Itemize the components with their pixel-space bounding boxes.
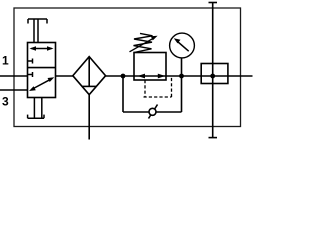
gauge G1 needle xyxy=(174,38,189,51)
valve V1 bottom position: blocked port symbol xyxy=(28,72,33,77)
wire: valve outlet to filter xyxy=(56,75,73,77)
valve V1 manual push-pull knob actuator xyxy=(28,19,47,43)
wire: bypass loop bottom run xyxy=(123,111,182,113)
valve V1 top position: blocked port symbol xyxy=(28,59,33,64)
wire: bypass loop right rise xyxy=(181,76,183,112)
wire: main flow line port 1 to outlet (y=76) xyxy=(0,75,28,77)
regulator R1 adjustment spring (zigzag) xyxy=(134,33,153,52)
svg-text:3: 3 xyxy=(2,95,9,109)
svg-text:1: 1 xyxy=(2,54,9,68)
on-off valve V1 body (3/2 shut-off valve, two position boxes) xyxy=(28,43,56,98)
manifold top end cap xyxy=(209,2,218,4)
manifold bottom end cap xyxy=(209,137,218,139)
pressure gauge G1 xyxy=(170,33,195,58)
node: junction main line / bypass branch (left) xyxy=(121,74,126,79)
wire: gauge stem xyxy=(181,58,183,76)
pressure regulator R1 body xyxy=(134,53,166,81)
node: junction main line / manifold xyxy=(210,74,215,79)
enclosure border (service unit assembly frame) xyxy=(14,8,241,127)
wire: bypass loop left drop xyxy=(122,76,124,112)
regulator R1 bidirectional flow arrowheads xyxy=(138,74,166,79)
wire: filter condensate drain line xyxy=(88,95,90,140)
filter F1 with water separator (diamond) xyxy=(73,57,106,95)
wire: filter to regulator and onward to right edge xyxy=(106,75,253,77)
valve V1 bottom position: exhaust flow path 2->3 diagonal arrow xyxy=(29,77,54,91)
node: junction gauge / bypass loop (right) xyxy=(179,74,184,79)
regulator R1 adjustability arrow through spring xyxy=(130,36,158,52)
valve V1 top position: bidirectional flow arrow xyxy=(30,46,54,51)
wire: output manifold vertical line xyxy=(212,3,214,138)
distribution block B1 xyxy=(201,64,228,84)
wire: port 3 exhaust line xyxy=(0,89,28,91)
check valve C1 in bypass loop xyxy=(149,105,158,119)
regulator R1 pilot feedback line (dashed) xyxy=(144,77,172,97)
valve V1 exhaust duct below (port 3 vent) xyxy=(28,98,44,119)
